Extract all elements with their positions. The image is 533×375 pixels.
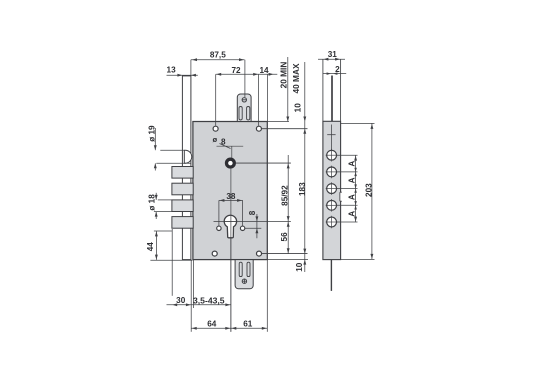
- svg-text:61: 61: [243, 319, 253, 328]
- dimension 14: [259, 73, 278, 75]
- side hole 5: [327, 217, 337, 227]
- top tab slot left: [239, 107, 242, 121]
- top tab slot right: [247, 107, 250, 121]
- svg-text:31: 31: [328, 50, 338, 59]
- dimension 2: [323, 73, 346, 75]
- side view centreline: [331, 125, 333, 152]
- svg-text:10: 10: [295, 262, 304, 272]
- dimension 20 MIN: [287, 57, 289, 122]
- dimension 61: [231, 327, 267, 329]
- screw hole top left: [213, 126, 218, 131]
- svg-text:10: 10: [293, 103, 302, 113]
- follower crosshair: [217, 145, 244, 147]
- top tab screw: [242, 98, 246, 102]
- svg-text:203: 203: [365, 183, 374, 197]
- side hole reference lines: [326, 154, 358, 156]
- dimension chain A A A A: [355, 155, 357, 222]
- deadbolt block 4: [172, 217, 193, 229]
- dimension 38: [219, 199, 243, 201]
- svg-text:13: 13: [167, 66, 177, 75]
- side hole 1: [327, 150, 337, 160]
- dimension 8 (cylinder to hole): [256, 214, 258, 238]
- svg-text:85/92: 85/92: [280, 185, 289, 206]
- fixing hole reference line: [245, 227, 261, 229]
- svg-text:14: 14: [259, 66, 269, 75]
- body bottom reference line right: [267, 259, 308, 261]
- side view plate seam tick: [327, 134, 335, 136]
- svg-text:56: 56: [280, 232, 289, 242]
- dimension 10 top: [267, 121, 289, 123]
- extension line bolt tip: [171, 229, 173, 296]
- faceplate (front view, edge-on strip): [182, 76, 191, 260]
- screw hole bottom left: [212, 251, 217, 256]
- euro cylinder keyhole: [224, 215, 236, 238]
- bottom guide tab on case: [235, 260, 253, 289]
- dimension 203: [341, 122, 375, 124]
- hole reference line top: [262, 128, 308, 130]
- top guide tab on case: [237, 94, 251, 122]
- svg-text:A: A: [348, 194, 357, 200]
- side view notch on right edge: [340, 192, 342, 201]
- deadbolt block 2: [172, 183, 193, 195]
- svg-text:30: 30: [176, 296, 186, 305]
- deadbolt block 3: [172, 200, 193, 212]
- svg-text:A: A: [348, 161, 357, 167]
- side view 2mm plate edge lower tail: [330, 260, 332, 291]
- euro keyhole crosshair overdraw: [224, 220, 237, 222]
- svg-text:183: 183: [298, 182, 307, 196]
- extension line body right bottom: [266, 260, 268, 332]
- dimension 64: [191, 327, 231, 329]
- side hole crosshair ticks: [331, 149, 333, 162]
- bottom tab slot left: [239, 262, 242, 276]
- follower reference line: [235, 162, 291, 164]
- dimension 40 MAX: [304, 62, 306, 272]
- svg-text:72: 72: [231, 66, 241, 75]
- svg-text:ø: ø: [212, 135, 217, 144]
- svg-text:2: 2: [335, 65, 340, 74]
- svg-text:64: 64: [207, 319, 217, 328]
- side view mounting plate upper part: [322, 59, 324, 121]
- cylinder reference line: [214, 220, 291, 222]
- dimension 31: [318, 58, 345, 60]
- svg-text:A: A: [348, 211, 357, 217]
- extension line faceplate right: [190, 260, 192, 332]
- leader for diameter 8: [220, 144, 231, 149]
- latch bolt (d-shape): [184, 150, 191, 163]
- screw hole top right: [256, 126, 261, 131]
- side view 2mm plate edge upper: [331, 76, 333, 122]
- svg-text:20 MIN: 20 MIN: [278, 62, 288, 89]
- side view faceplate strip: [323, 121, 341, 259]
- dimension 85/92: [287, 155, 289, 254]
- side hole 2: [327, 167, 337, 177]
- follower hub (dark ring): [227, 159, 235, 167]
- lock body (case): [193, 122, 267, 260]
- svg-text:3,5-43,5: 3,5-43,5: [193, 296, 225, 306]
- bottom tab slot right: [247, 262, 250, 276]
- cylinder fixing hole right: [240, 226, 244, 230]
- dimension 72: [216, 73, 259, 75]
- dimension 87,5: [191, 59, 245, 61]
- bottom tab screw (phillips): [242, 279, 246, 283]
- side hole 4: [327, 200, 337, 210]
- dimension 30 and 3,5-43,5: [167, 304, 231, 306]
- cylinder fixing hole left: [217, 226, 221, 230]
- svg-text:40 MAX: 40 MAX: [291, 63, 301, 93]
- dimension 56: [287, 222, 290, 227]
- svg-text:38: 38: [226, 192, 236, 201]
- extension line body left: [192, 260, 194, 308]
- svg-text:44: 44: [146, 242, 155, 252]
- screw hole bottom right: [257, 251, 262, 256]
- vertical centreline key axis: [230, 169, 232, 332]
- svg-text:ø 18: ø 18: [147, 194, 156, 211]
- dimension 10 bottom: [303, 260, 306, 265]
- deadbolt block 1: [172, 167, 193, 179]
- hole reference line bottom: [262, 253, 308, 255]
- svg-text:87,5: 87,5: [210, 50, 226, 59]
- svg-text:A: A: [348, 177, 357, 183]
- dimension 13: [167, 74, 198, 76]
- side hole 3: [327, 184, 337, 194]
- svg-text:8: 8: [221, 137, 226, 146]
- dimension 183: [303, 249, 306, 254]
- extension line key axis bottom: [230, 237, 232, 332]
- svg-text:8: 8: [248, 210, 257, 215]
